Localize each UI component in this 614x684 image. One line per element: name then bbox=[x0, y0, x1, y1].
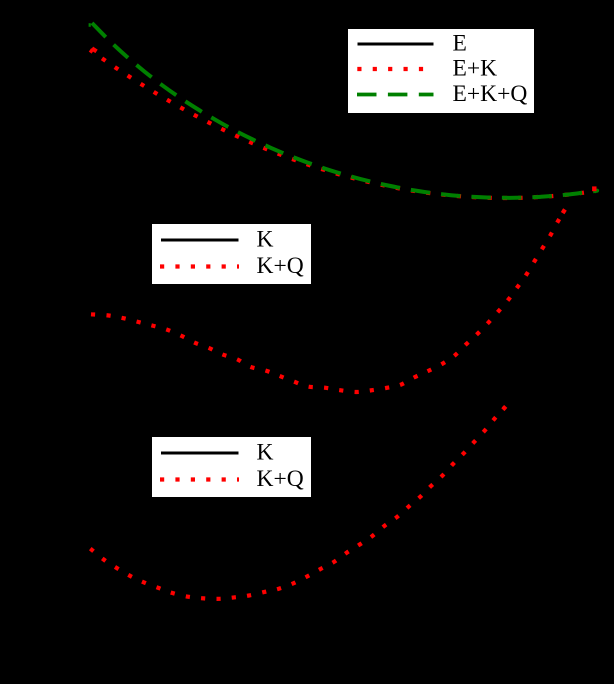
curve E+K (top panel, red dotted) bbox=[90, 50, 596, 198]
legend box middle (K / K+Q) bbox=[152, 224, 311, 284]
legend sample line E (black solid) bbox=[358, 43, 434, 46]
legend sample line E+K (red dotted) bbox=[357, 67, 433, 71]
svg-text:E: E bbox=[453, 30, 467, 56]
legend sample line K (black solid) bbox=[161, 451, 239, 454]
svg-text:K+Q: K+Q bbox=[257, 253, 304, 279]
legend sample line K+Q (red dotted) bbox=[160, 264, 239, 268]
start tick, top E+K+Q green curve bbox=[89, 23, 91, 27]
curve K+Q (bottom panel, red dotted) bbox=[90, 407, 505, 599]
curve E+K+Q (top panel, green dashed) bbox=[91, 22, 597, 198]
legend box bottom (K / K+Q) bbox=[152, 437, 311, 497]
svg-text:K+Q: K+Q bbox=[257, 466, 304, 492]
svg-text:K: K bbox=[257, 226, 274, 252]
end marker dot, middle K+Q curve top end bbox=[561, 208, 567, 214]
legend sample line E+K+Q (green dashed) bbox=[357, 93, 434, 97]
svg-text:E+K+Q: E+K+Q bbox=[453, 81, 528, 107]
legend sample line K (black solid) bbox=[161, 238, 239, 241]
start blob, top E+K red curve bbox=[91, 47, 98, 54]
svg-text:K: K bbox=[257, 439, 274, 465]
legend box top (E / E+K / E+K+Q) bbox=[348, 29, 534, 113]
end marker dot, bottom K+Q curve right end bbox=[501, 405, 507, 411]
legend sample line K+Q (red dotted) bbox=[160, 477, 239, 481]
curve K+Q (middle panel, red dotted) bbox=[91, 211, 564, 392]
svg-text:E+K: E+K bbox=[453, 55, 498, 81]
end marker dot, top E+K curve right end bbox=[592, 186, 596, 191]
